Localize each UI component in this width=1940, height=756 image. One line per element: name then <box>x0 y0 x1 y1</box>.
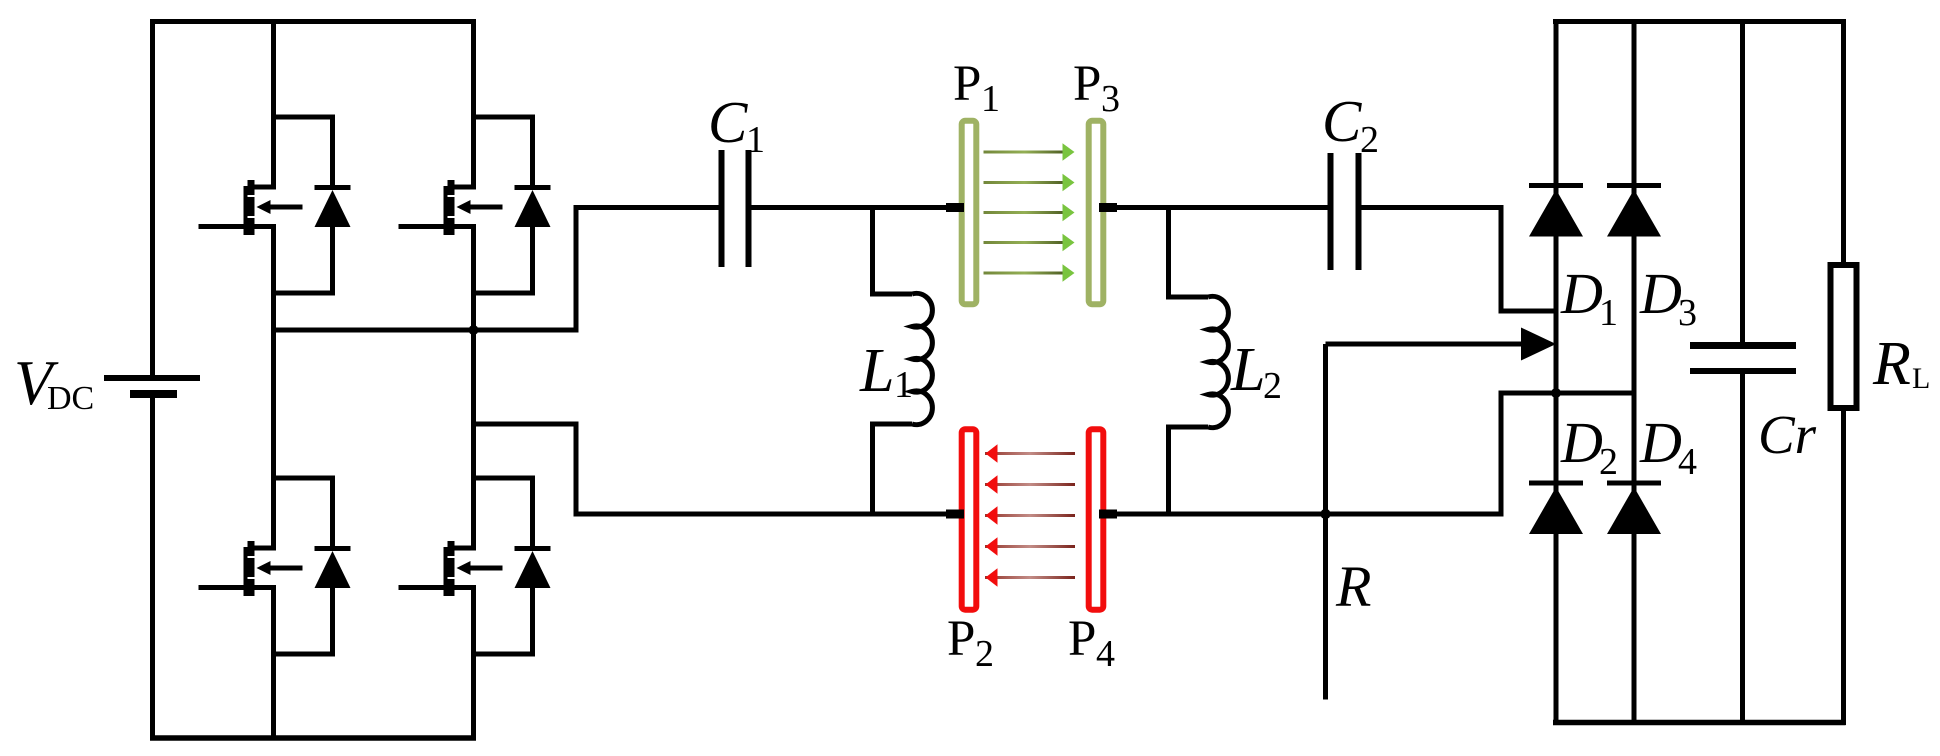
wire: rectifier top bus <box>1553 19 1846 24</box>
wire: C1 to plate P1 <box>752 205 963 210</box>
svg-text:2: 2 <box>975 633 994 675</box>
label C1 <box>708 89 765 161</box>
plate P2 <box>962 429 977 610</box>
inductor L2 <box>1169 208 1229 515</box>
wire: stub out of P4 <box>1099 510 1117 519</box>
wire: rectifier leg D1/D2 <box>1554 19 1559 725</box>
wire: bottom DC bus <box>150 735 476 741</box>
resistor RL <box>1831 19 1857 725</box>
svg-text:P: P <box>1068 611 1096 667</box>
label VDC <box>14 348 94 418</box>
field arrow 10 <box>985 568 1075 587</box>
wire: rectifier leg D3/D4 <box>1632 19 1637 725</box>
wire: battery positive lead <box>150 19 155 375</box>
field arrow 8 <box>985 506 1075 525</box>
label L2 <box>1230 336 1282 407</box>
MOSFET Q2 with body diode (bottom-left arm) <box>199 478 351 654</box>
svg-text:4: 4 <box>1678 441 1697 483</box>
sense line R <box>1323 344 1328 700</box>
node: junction dot at D1 leg <box>1551 388 1561 398</box>
node: junction dot on right leg <box>469 325 479 335</box>
diode D3 <box>1607 186 1661 237</box>
svg-text:P: P <box>1073 56 1101 112</box>
svg-text:2: 2 <box>1263 365 1282 407</box>
wire: stub into P1 <box>946 203 964 212</box>
wire: stub out of P3 <box>1099 203 1117 212</box>
svg-text:1: 1 <box>1599 292 1618 334</box>
wire: inverter right leg <box>471 19 476 741</box>
svg-text:P: P <box>953 56 981 112</box>
battery VDC <box>104 378 200 394</box>
svg-text:R: R <box>1335 554 1371 619</box>
diode D2 <box>1529 483 1583 534</box>
svg-text:L: L <box>1912 362 1930 395</box>
wire: rectifier bottom bus <box>1553 720 1846 726</box>
field arrow 3 <box>984 204 1075 221</box>
inductor L1 <box>873 208 933 515</box>
svg-text:D: D <box>1639 410 1682 475</box>
svg-text:1: 1 <box>746 119 765 161</box>
svg-text:C: C <box>1322 88 1362 154</box>
field arrow 2 <box>984 174 1075 191</box>
svg-text:D: D <box>1560 410 1603 475</box>
label P2 <box>947 611 994 675</box>
wire: midpoint B to plate P2 (bottom AC output) <box>474 424 963 514</box>
svg-text:R: R <box>1872 330 1911 398</box>
label P3 <box>1073 56 1120 120</box>
wire: stub into P2 <box>946 510 964 519</box>
label L1 <box>859 337 913 406</box>
svg-text:1: 1 <box>894 364 913 406</box>
field arrow 5 <box>984 264 1075 281</box>
field arrow 6 (P4 to P2) <box>985 444 1075 463</box>
wire: midpoint A to C1 (top AC output) <box>274 208 719 331</box>
node: junction dot at R tap <box>1320 509 1330 519</box>
svg-text:3: 3 <box>1101 78 1120 120</box>
capacitor Cr <box>1690 346 1796 372</box>
plate P4 <box>1089 429 1104 610</box>
label D3 <box>1639 261 1697 334</box>
wire: C2 to rectifier top input <box>1362 208 1555 312</box>
capacitor C1 <box>722 150 749 267</box>
svg-text:2: 2 <box>1360 119 1379 161</box>
svg-text:Cr: Cr <box>1758 404 1817 465</box>
label P1 <box>953 56 1000 120</box>
field arrow 1 (P1 to P3) <box>984 143 1075 160</box>
diode D1 <box>1529 186 1583 237</box>
field arrow 7 <box>985 475 1075 494</box>
arrow into rectifier <box>1326 328 1557 361</box>
label P4 <box>1068 611 1115 675</box>
label D2 <box>1560 410 1618 483</box>
svg-text:L: L <box>859 337 894 405</box>
svg-text:DC: DC <box>47 380 94 417</box>
svg-text:2: 2 <box>1599 441 1618 483</box>
MOSFET Q1 with body diode (top-left arm) <box>199 117 351 293</box>
wire: Cr leg <box>1740 19 1745 725</box>
svg-text:D: D <box>1639 261 1682 326</box>
label RL <box>1872 330 1930 398</box>
svg-text:C: C <box>708 89 748 155</box>
wire: battery negative lead <box>150 397 155 741</box>
svg-text:4: 4 <box>1096 633 1115 675</box>
wire: P4 to rectifier bottom input <box>1103 393 1634 514</box>
svg-text:D: D <box>1560 261 1603 326</box>
wire: top DC bus <box>150 19 476 24</box>
label D4 <box>1639 410 1697 483</box>
label C2 <box>1322 88 1379 161</box>
MOSFET Q3 with body diode (top-right arm) <box>399 117 551 293</box>
svg-text:3: 3 <box>1678 292 1697 334</box>
capacitor C2 <box>1331 153 1359 270</box>
svg-text:L: L <box>1230 336 1265 404</box>
diode D4 <box>1607 483 1661 534</box>
field arrow 9 <box>985 537 1075 556</box>
wire: P3 to C2 <box>1103 205 1328 210</box>
svg-text:1: 1 <box>981 78 1000 120</box>
wire: inverter left leg <box>271 19 276 741</box>
plate P1 <box>962 121 977 304</box>
field arrow 4 <box>984 234 1075 251</box>
label D1 <box>1560 261 1618 334</box>
svg-text:P: P <box>947 611 975 667</box>
plate P3 <box>1089 121 1104 304</box>
MOSFET Q4 with body diode (bottom-right arm) <box>399 478 551 654</box>
